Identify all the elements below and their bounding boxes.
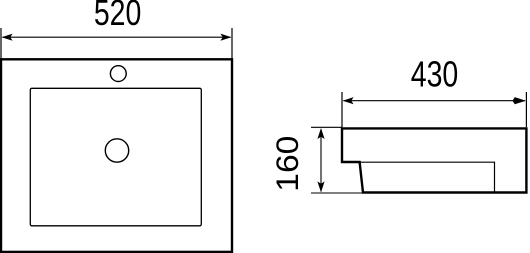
dimension 520: dimension line bbox=[3, 36, 231, 38]
dimension 520: left arrowhead bbox=[2, 34, 13, 41]
basin top view: outer rim rectangle bbox=[1, 59, 232, 252]
dimension 160: top extension line bbox=[311, 126, 342, 128]
dimension 160: bottom arrowhead bbox=[317, 181, 324, 192]
dimension 160: top arrowhead bbox=[317, 128, 324, 139]
svg-text:430: 430 bbox=[411, 54, 459, 95]
dimension 520: right arrowhead bbox=[220, 34, 231, 41]
dimension 430: dimension line bbox=[344, 100, 526, 102]
side view: outer profile outline bbox=[342, 128, 526, 192]
drain hole circle bbox=[105, 139, 128, 162]
basin top view: inner bowl rectangle bbox=[30, 88, 201, 226]
svg-text:520: 520 bbox=[94, 0, 142, 33]
side view: inner bowl edge line bbox=[360, 162, 495, 192]
dimension 430: right extension line bbox=[525, 92, 527, 127]
dimension 430: left arrowhead bbox=[343, 97, 354, 104]
dimension 430: left extension line bbox=[341, 92, 343, 127]
dimension 160: dimension line bbox=[320, 130, 322, 192]
dimension 430: right arrowhead bbox=[513, 97, 526, 104]
svg-text:160: 160 bbox=[269, 136, 305, 192]
dimension 520: right extension line bbox=[231, 28, 233, 59]
dimension 160: bottom extension line bbox=[311, 192, 363, 194]
dimension 520: left extension line bbox=[0, 28, 2, 59]
faucet hole circle bbox=[110, 66, 126, 82]
